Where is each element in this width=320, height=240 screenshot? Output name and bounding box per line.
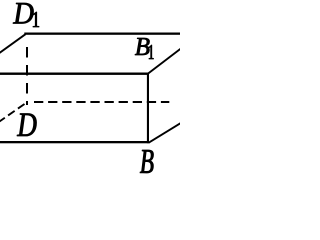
edge B1B (front right vertical) [147, 73, 149, 144]
label B [140, 150, 154, 173]
label D1 [13, 3, 39, 27]
label B1 [135, 38, 154, 59]
edge DA (hidden diagonal to lower left, dashed) [0, 104, 25, 122]
label D [17, 114, 37, 137]
edge D1D (hidden vertical, dashed) [26, 47, 28, 105]
edge D1C1 (top back horizontal) [24, 33, 180, 35]
edge DB (hidden bottom horizontal, dashed) [34, 101, 169, 103]
edge AB (front bottom horizontal) [0, 141, 149, 143]
edge A1D1 (upper-left receding diagonal) [0, 34, 26, 53]
edge BC (diagonal from B up right) [149, 123, 182, 143]
edge B1C1 (diagonal from B1 up right) [148, 48, 181, 73]
edge A1B1 (front top horizontal) [0, 73, 149, 75]
